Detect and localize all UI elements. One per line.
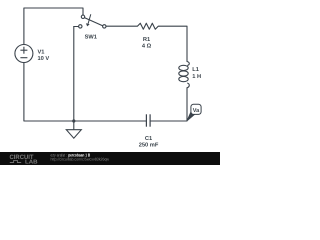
wire V1 bottom to rail [24,63,74,121]
wire resistor to right corner and down to inductor [159,26,187,61]
wire top rail from V1 to switch [24,8,83,44]
svg-text:SW1: SW1 [85,35,97,41]
svg-text:L1: L1 [192,67,199,73]
svg-text:4 Ω: 4 Ω [142,44,152,50]
voltage source V1 [15,45,33,63]
svg-text:V1: V1 [38,50,45,56]
switch actuator arrow [86,14,91,26]
inductor L1 [179,62,189,88]
switch SW1 [79,15,106,28]
resistor R1 [137,23,159,29]
svg-text:10 V: 10 V [38,56,50,62]
svg-text:1 H: 1 H [192,74,201,80]
svg-text:R1: R1 [143,37,150,43]
wire switch left stub [74,26,79,28]
svg-text:http://circuitlab.com/c/5wcxv8: http://circuitlab.com/c/5wcxv83k26qw [51,157,110,162]
watermark bar [0,152,220,166]
node Va flag [187,104,201,121]
ground [66,121,81,138]
svg-text:250 mF: 250 mF [139,143,159,149]
wire capacitor to ground junction [74,120,147,122]
svg-text:LAB: LAB [25,160,38,165]
svg-text:Va: Va [193,108,200,114]
wire inductor bottom to corner to capacitor [150,88,187,121]
svg-text:C1: C1 [145,136,152,142]
wire ground branch vertical [73,27,75,122]
capacitor C1 [146,114,150,126]
wire switch to resistor [106,25,137,27]
junction dot at ground node [72,119,75,122]
